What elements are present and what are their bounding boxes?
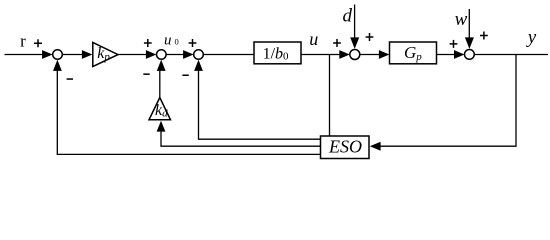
wire block 1/b0 to S4: [301, 54, 342, 56]
svg-text:r: r: [20, 32, 26, 51]
plus sign right at summing junction S4: [366, 33, 374, 41]
minus sign at S2 feedback: [143, 73, 149, 75]
arrowhead into Gp: [379, 50, 390, 59]
arrowhead into ESO right: [370, 142, 381, 151]
minus sign at S3 feedback: [182, 75, 188, 77]
wire ESO output z2 to kd: [161, 129, 321, 146]
summing junction S5: [465, 50, 475, 60]
summing junction S4: [350, 50, 360, 60]
arrowhead into S3: [183, 50, 194, 59]
arrowhead d into S4: [350, 37, 359, 49]
summing junction S1: [53, 50, 63, 60]
block Gp: [390, 42, 437, 64]
node u label: [309, 29, 318, 49]
wire r input: [5, 54, 45, 56]
block ESO: [321, 136, 370, 159]
arrowhead into S4: [339, 50, 350, 59]
arrowhead into kp: [82, 50, 93, 59]
arrowhead z2 into kd: [157, 121, 166, 132]
wire S1 to kp: [62, 54, 84, 56]
node y label: [526, 27, 537, 48]
node r label: [20, 32, 26, 51]
wire S4 to Gp: [360, 54, 381, 56]
svg-text:y: y: [526, 27, 537, 48]
plus sign at summing junction S1: [34, 39, 42, 47]
wire ESO output z1 to S1: [57, 69, 320, 155]
svg-text:ESO: ESO: [328, 137, 362, 157]
wire w input: [468, 9, 470, 39]
block 1/b0: [254, 42, 301, 64]
arrowhead into S5: [454, 50, 465, 59]
arrowhead into S1: [42, 50, 53, 59]
svg-text:u: u: [309, 29, 318, 49]
arrowhead z1 into S1: [53, 60, 62, 71]
wire kd to S2: [159, 69, 161, 99]
wire y branch down and left to ESO: [379, 55, 516, 147]
plus sign left at summing junction S4: [333, 39, 341, 47]
plus sign at summing junction S3: [189, 39, 197, 47]
arrowhead kd into S2: [157, 60, 166, 71]
wire u branch down to ESO: [329, 55, 331, 137]
svg-text:d: d: [343, 6, 353, 27]
gain kd triangle: [149, 98, 171, 120]
wire S5 to output y: [475, 54, 548, 56]
wire Gp to S5: [437, 54, 458, 56]
wire S3 to block 1/b0: [203, 54, 254, 56]
node w label: [455, 9, 468, 30]
minus sign at S1 feedback: [67, 78, 73, 80]
summing junction S2: [157, 50, 167, 60]
arrowhead z3 into S3: [194, 60, 203, 71]
wire kp to S2: [118, 54, 148, 56]
node d label: [343, 6, 353, 27]
plus sign at summing junction S2: [144, 39, 152, 47]
arrowhead w into S5: [465, 37, 474, 49]
gain kp triangle: [93, 43, 118, 67]
plus sign left at summing junction S5: [450, 40, 458, 48]
summing junction S3: [194, 50, 204, 60]
node u0 label: [164, 33, 179, 49]
plus sign right at summing junction S5: [480, 32, 488, 40]
arrowhead into S2: [146, 50, 157, 59]
wire S2 to S3: [166, 54, 185, 56]
svg-text:w: w: [455, 9, 468, 30]
wire d input: [354, 5, 356, 40]
wire ESO output z3 to S3: [199, 69, 321, 140]
